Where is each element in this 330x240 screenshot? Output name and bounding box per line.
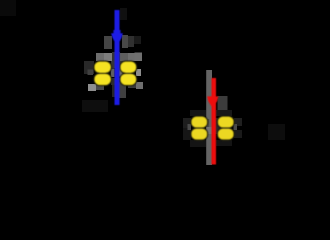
dark block right of right lobes lower <box>234 130 242 138</box>
orbital lobe bottom-left <box>191 128 208 140</box>
bright block below-left of lobes <box>88 84 96 91</box>
orbital lobe top-right <box>218 116 235 128</box>
gray block right of arrowhead <box>122 35 128 48</box>
gray band above lobes seg1 <box>96 53 104 61</box>
darker notch on bar at waist <box>206 119 209 127</box>
blue spin arrow shaft <box>115 10 120 105</box>
lighter notch on bar below waist <box>206 127 212 134</box>
faint block right of shaft top <box>120 8 127 20</box>
waist tick right of right lobes <box>234 124 238 130</box>
gray block left of arrowhead <box>104 36 112 49</box>
gray column below lobes center-left <box>112 85 119 97</box>
gray band above lobes seg4 <box>128 53 136 61</box>
faint far block right <box>268 124 285 140</box>
waist tick far left of lobes <box>88 70 94 76</box>
faint block above right lobes <box>216 110 232 116</box>
orbital lobe top-left <box>191 116 208 128</box>
waist bright tick right of lobes <box>136 69 141 76</box>
waist tick left of right lobes <box>188 124 192 130</box>
gray block below lobes right <box>128 82 136 88</box>
faint block above left lobes <box>190 110 206 116</box>
gray band above lobes seg2 <box>104 53 112 61</box>
blue spin arrowhead <box>111 33 123 46</box>
faint gray right of arrowhead <box>134 36 141 44</box>
orbital lobe bottom-right <box>120 73 137 85</box>
blue arrow smear above head <box>113 30 120 33</box>
dark block left of lobes <box>183 118 191 128</box>
gray band above lobes center <box>112 52 120 61</box>
orbital lobe top-left <box>94 61 111 73</box>
gray band above lobes seg3 <box>120 53 128 61</box>
waist area right of red line <box>216 118 223 134</box>
faint corner block <box>0 0 16 16</box>
faint block below left lobes <box>190 140 206 147</box>
faint band bottom of left structure <box>82 100 108 112</box>
gray block far right of arrowhead <box>128 36 134 47</box>
orbital lobe bottom-left <box>94 73 111 85</box>
red spin arrowhead <box>207 96 218 108</box>
gray block below lobes left <box>96 84 104 90</box>
dark block left of lobes <box>84 61 94 74</box>
center column between lobes lower <box>111 78 124 85</box>
dark block left-lower of lobes <box>183 128 191 140</box>
faint block below right lobes <box>216 140 232 146</box>
gray vertical bar behind red arrow <box>206 70 212 165</box>
waist light tick right of blue line <box>119 68 122 77</box>
center column between lobes upper <box>111 61 124 68</box>
waist light tick left of blue line <box>111 69 115 78</box>
gray block right of red arrowhead <box>218 96 228 112</box>
orbital lobe bottom-right <box>218 128 235 140</box>
red spin arrow shaft <box>212 78 217 165</box>
gray column below lobes center-right <box>119 82 126 98</box>
gray band above lobes seg5 <box>135 53 143 62</box>
orbital lobe top-right <box>120 61 137 73</box>
dark block right of right lobes upper <box>234 118 242 126</box>
light block below-right of lobes <box>136 82 143 89</box>
